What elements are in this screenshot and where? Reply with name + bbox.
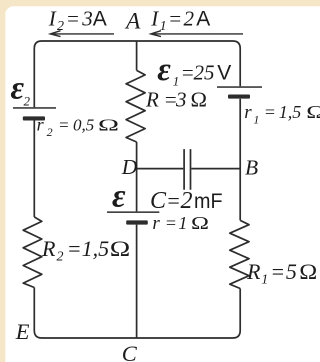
resistor R1 = 5 ohm (zigzag) [230,220,249,288]
svg-text:R1=5Ω: R1=5Ω [246,259,317,288]
battery e: thin long plate [107,211,159,213]
wire: middle wire from R through node D to battery e [136,142,138,211]
wire: capacitor branch right plate to node B [191,168,240,170]
battery e1: thin long plate [217,86,262,88]
svg-text:A: A [124,8,141,34]
battery e: thick short plate [126,220,148,224]
resistor R2 = 1.5 ohm (zigzag) [23,217,42,288]
battery e2: thin long plate [13,107,56,109]
wire: right wire between battery e1 and R1 (through node B) [239,99,241,221]
svg-text:R2=1,5Ω: R2=1,5Ω [41,236,130,265]
battery e2: thick short plate [23,116,45,120]
svg-text:C=2mF: C=2mF [150,188,223,214]
svg-text:C: C [122,341,138,362]
svg-text:E: E [15,319,30,344]
svg-text:D: D [121,155,138,179]
wire: capacitor branch D to left plate [137,168,184,170]
svg-text:ε: ε [112,179,126,215]
svg-text:R=3Ω: R=3Ω [145,87,207,111]
current arrow I1 (points left) [151,31,243,37]
wire: middle wire below battery e down to bottom node C [136,225,138,338]
capacitor C plates [184,149,190,190]
wire: middle wire from top node A down to R [136,41,138,70]
resistor R = 3 ohm (zigzag) [126,70,145,142]
wire: left wire below battery e2 down to R2 [33,121,35,218]
wire: left wire lower + bottom wire + right wire lower [34,288,240,339]
wire: outer top loop A (left wire upper, top wire, right wire upper) [34,41,240,107]
battery e1: thick short plate [228,95,250,99]
current arrow I2 (points left) [50,31,114,37]
svg-text:B: B [245,156,258,180]
